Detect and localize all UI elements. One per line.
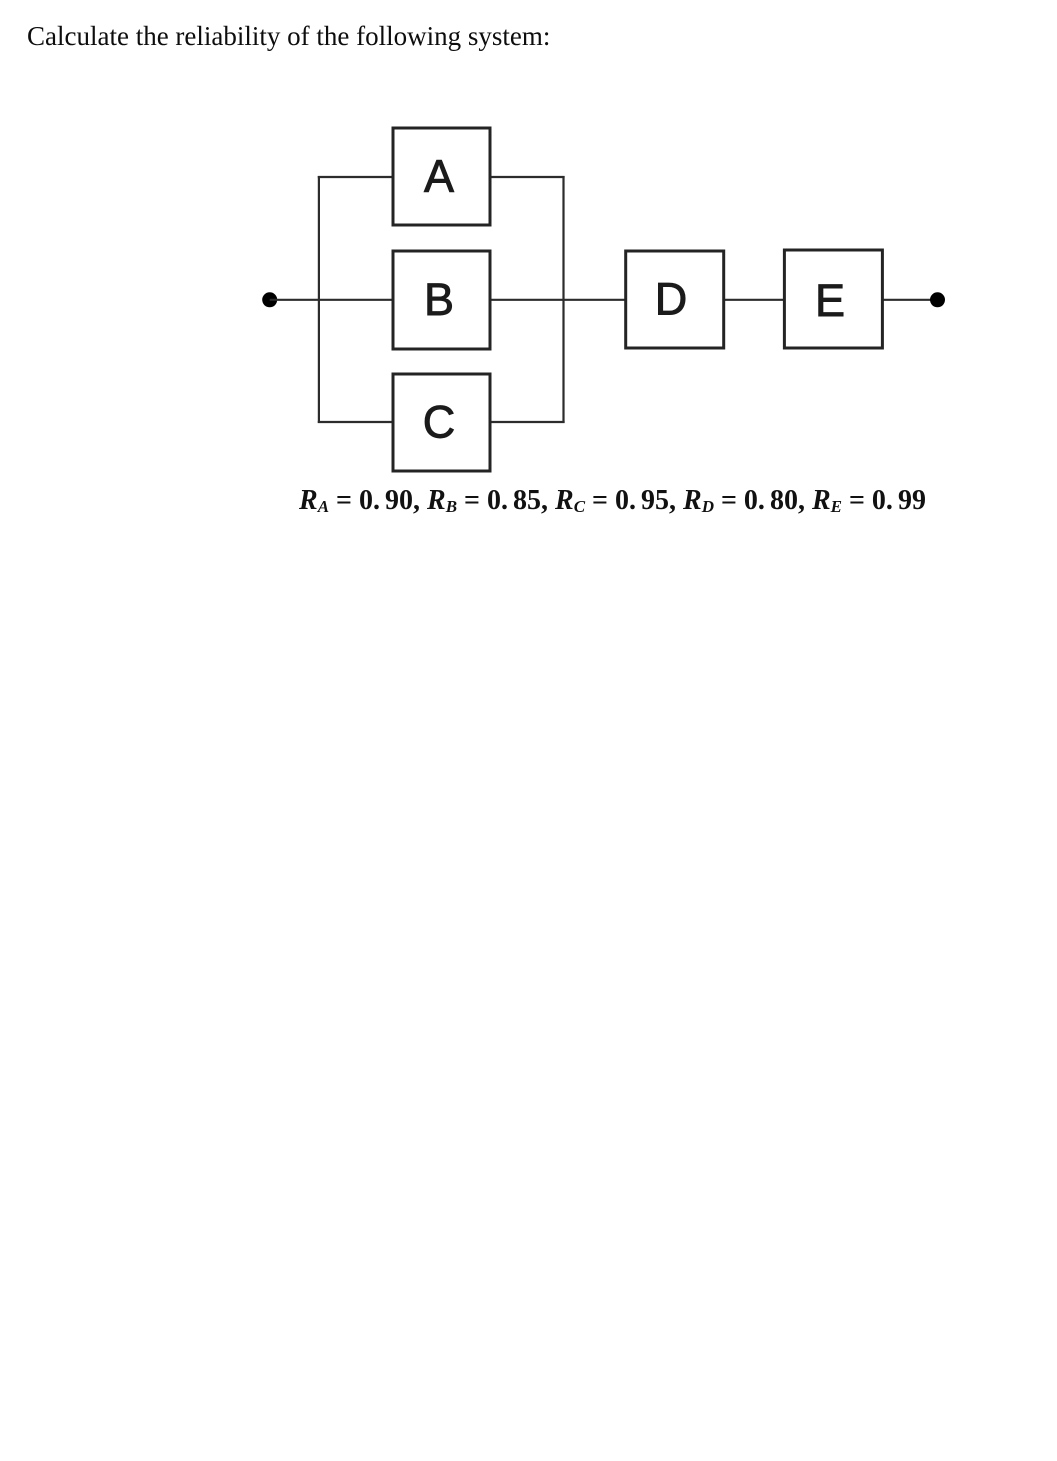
svg-text:E: E [815,275,845,326]
input node (start terminal dot) [262,292,277,307]
wire: block E to output node [882,299,937,301]
wire: block C output to right bus [490,421,565,423]
output node (end terminal dot) [930,292,945,307]
block A [393,128,490,225]
wire: branch into block C [318,421,393,423]
svg-text:B: B [424,274,454,325]
wire: block A output to right bus [490,176,565,178]
left parallel bus (vertical wire) [318,176,320,423]
wire: block B output through right bus to block D [490,299,626,301]
svg-text:D: D [655,274,688,325]
block C [393,374,490,471]
block E [784,250,882,348]
block B [393,251,490,349]
wire: branch into block A [318,176,393,178]
reliability values formula [299,487,926,515]
wire: block D to block E [724,299,785,301]
block D [626,251,724,348]
svg-text:A: A [424,151,454,202]
right parallel bus (vertical wire) [562,176,564,423]
wire: input lead from start dot to block B (crosses left bus) [270,299,393,301]
svg-text:C: C [423,397,456,448]
title text [27,23,550,50]
